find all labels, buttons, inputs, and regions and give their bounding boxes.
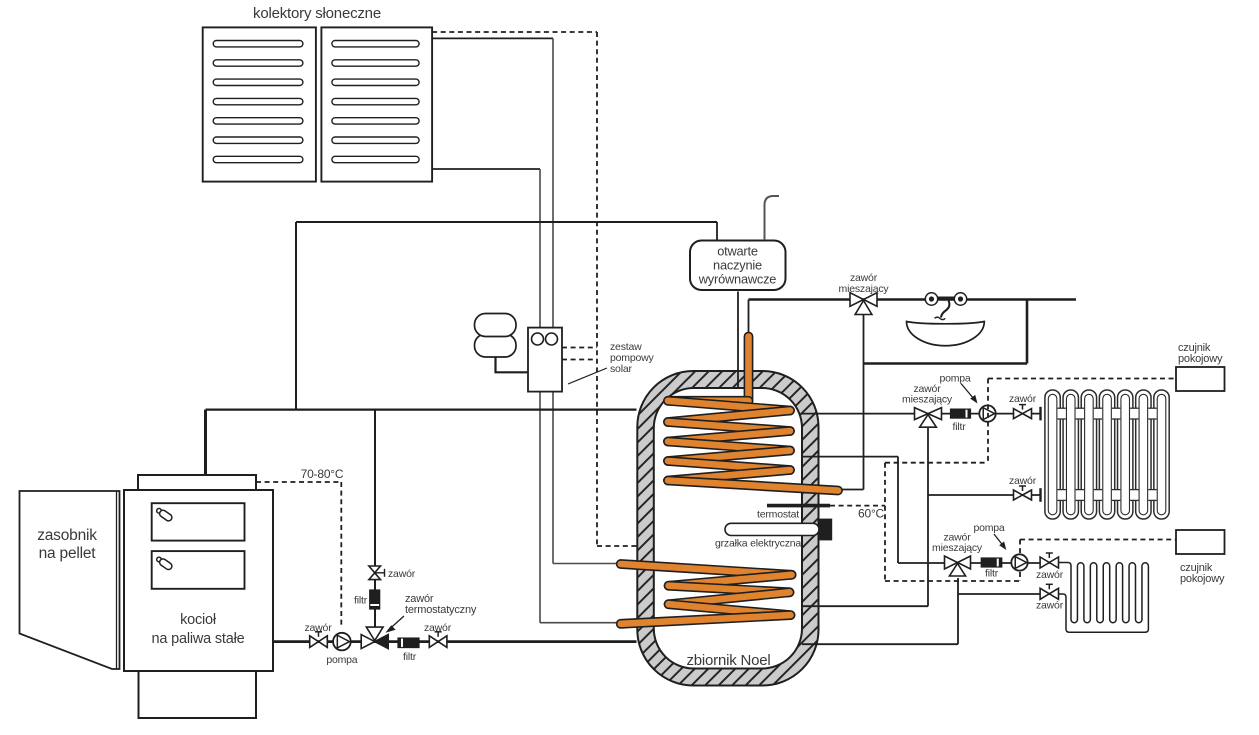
svg-text:pompa: pompa bbox=[973, 522, 1004, 534]
svg-text:zawór: zawór bbox=[304, 622, 332, 634]
svg-text:pompa: pompa bbox=[326, 654, 357, 666]
svg-text:zawór: zawór bbox=[424, 622, 452, 634]
svg-text:zawór: zawór bbox=[1036, 599, 1064, 611]
svg-text:pokojowy: pokojowy bbox=[1178, 353, 1223, 365]
svg-text:zbiornik Noel: zbiornik Noel bbox=[686, 652, 770, 669]
svg-text:60°C: 60°C bbox=[858, 507, 885, 521]
svg-text:zawór: zawór bbox=[1009, 475, 1037, 487]
svg-text:na pellet: na pellet bbox=[39, 545, 97, 562]
svg-text:termostatyczny: termostatyczny bbox=[405, 604, 477, 616]
svg-text:solar: solar bbox=[610, 363, 632, 375]
svg-text:mieszający: mieszający bbox=[902, 394, 953, 406]
svg-text:wyrównawcze: wyrównawcze bbox=[698, 272, 777, 287]
svg-text:mieszający: mieszający bbox=[839, 283, 890, 295]
svg-text:otwarte: otwarte bbox=[717, 244, 758, 259]
svg-text:zawór: zawór bbox=[1036, 569, 1064, 581]
svg-text:mieszający: mieszający bbox=[932, 542, 983, 554]
svg-text:na paliwa stałe: na paliwa stałe bbox=[152, 631, 245, 647]
svg-text:grzałka elektryczna: grzałka elektryczna bbox=[715, 538, 801, 550]
svg-text:filtr: filtr bbox=[403, 651, 417, 663]
svg-text:filtr: filtr bbox=[953, 421, 967, 433]
svg-text:zawór: zawór bbox=[1009, 393, 1037, 405]
svg-text:zawór: zawór bbox=[388, 568, 416, 580]
svg-text:70-80°C: 70-80°C bbox=[301, 467, 344, 481]
svg-text:zasobnik: zasobnik bbox=[37, 527, 97, 544]
svg-text:kolektory słoneczne: kolektory słoneczne bbox=[253, 5, 381, 22]
svg-text:pokojowy: pokojowy bbox=[1180, 573, 1225, 585]
svg-text:filtr: filtr bbox=[354, 595, 368, 607]
svg-text:filtr: filtr bbox=[985, 568, 999, 580]
svg-text:kocioł: kocioł bbox=[180, 612, 217, 628]
svg-text:naczynie: naczynie bbox=[713, 258, 762, 273]
svg-text:termostat: termostat bbox=[757, 509, 799, 521]
svg-text:pompa: pompa bbox=[939, 373, 970, 385]
